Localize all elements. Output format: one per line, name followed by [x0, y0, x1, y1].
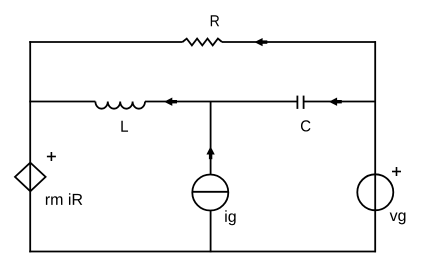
label vg	[390, 212, 406, 224]
current arrow right of capacitor (pointing left)	[330, 98, 342, 105]
wire middle center (inductor L to capacitor C, junction at ig branch)	[145, 101, 297, 103]
wire right vertical (node b to bottom node)	[374, 41, 376, 252]
wire middle branch vertical upper (junction to current source ig)	[210, 102, 212, 175]
label C	[301, 120, 311, 131]
wire left vertical (node a to bottom node)	[29, 41, 31, 252]
capacitor C left plate	[296, 96, 298, 109]
wire middle-right (capacitor C to node b)	[304, 101, 376, 103]
capacitor C right plate	[303, 96, 305, 109]
label rm iR	[46, 193, 82, 205]
resistor R	[183, 39, 223, 46]
current source ig (circle with horizontal bar)	[192, 175, 228, 211]
wire middle branch vertical lower (current source ig to bottom wire)	[210, 211, 212, 253]
voltage source vg (circle)	[357, 174, 393, 210]
wire middle-left (node a to inductor L)	[29, 101, 95, 103]
label R	[211, 15, 219, 26]
current arrow on middle branch (pointing up)	[207, 147, 214, 159]
dependent source rm iR (diamond)	[15, 163, 46, 192]
label ig	[225, 210, 235, 225]
wire top left segment (node a to resistor R)	[29, 41, 182, 43]
wire bottom (left node to right node)	[29, 251, 376, 253]
plus sign of rm iR	[47, 152, 56, 161]
inductor L	[95, 102, 145, 109]
wire top right segment (resistor R to node b)	[222, 41, 376, 43]
current arrow on top wire (pointing left)	[255, 39, 267, 46]
plus sign of vg	[392, 167, 401, 176]
current arrow on middle wire (pointing left, between L and junction)	[165, 98, 177, 105]
label L	[121, 121, 128, 132]
current source ig horizontal bar	[192, 191, 228, 193]
